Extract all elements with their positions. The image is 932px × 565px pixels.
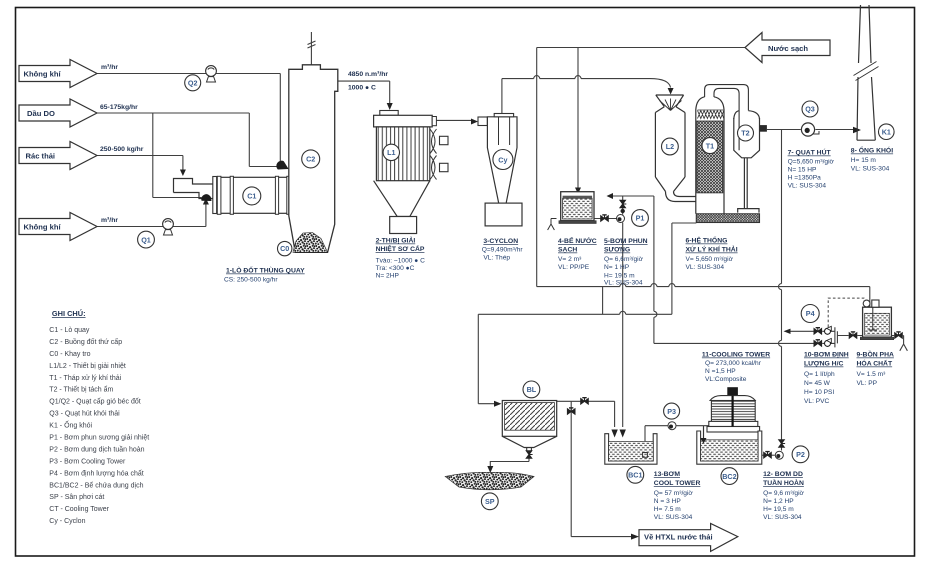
svg-text:N= 1 HP: N= 1 HP [604, 264, 630, 271]
combustion chamber C2 [289, 65, 338, 253]
arrow into cyclone [471, 119, 478, 125]
kiln right end band [287, 176, 291, 214]
heat exchanger L1 top cap [380, 111, 398, 116]
node P1 [632, 210, 649, 227]
svg-text:7- QUẠT HÚT: 7- QUẠT HÚT [788, 148, 832, 157]
svg-text:L1: L1 [387, 148, 395, 157]
svg-text:Về HTXL nước thải: Về HTXL nước thải [644, 533, 713, 542]
L1 dust box [390, 217, 417, 234]
svg-text:4850 n.m³/hr: 4850 n.m³/hr [348, 71, 388, 78]
L1 fan 1 [430, 129, 437, 154]
valve on P1 riser [620, 200, 626, 208]
L1 fan motor 1 [440, 136, 449, 144]
packed tower T1 [696, 97, 724, 214]
T1 zigzag spray band [698, 110, 724, 119]
svg-text:BL: BL [527, 385, 537, 394]
svg-text:Không khí: Không khí [24, 223, 62, 232]
node T2 [738, 125, 754, 141]
T2 outlet stub [760, 125, 767, 132]
scrubber labels [686, 235, 738, 272]
svg-text:5-BƠM PHUN: 5-BƠM PHUN [604, 238, 648, 245]
svg-text:P1: P1 [636, 214, 645, 223]
arrow into BL [494, 401, 502, 407]
svg-text:13-BƠM: 13-BƠM [654, 471, 681, 478]
waste feed chute [174, 179, 213, 199]
svg-text:BC1: BC1 [628, 471, 642, 480]
arrow into L1 top [387, 103, 393, 110]
P2 labels [763, 471, 804, 521]
svg-text:Q3 - Quạt hút khói thải: Q3 - Quạt hút khói thải [49, 411, 120, 418]
hop arc on H2 [620, 311, 626, 314]
wire tank9 drain right [891, 336, 907, 351]
svg-text:P2 - Bơm dung dịch tuần hoàn: P2 - Bơm dung dịch tuần hoàn [49, 445, 144, 454]
gas duct labels [348, 71, 388, 92]
fan Q2 [206, 66, 217, 82]
wire BL outlet to BC1 and waste water [557, 401, 631, 536]
L1 fan 2 [430, 156, 437, 180]
svg-text:12- BƠM DD: 12- BƠM DD [763, 471, 803, 478]
wire jumper between water main and blowdown line [602, 287, 604, 315]
quench tower L2 [655, 95, 695, 202]
svg-text:L2: L2 [666, 142, 674, 151]
chemical tank 9 [860, 300, 893, 340]
svg-text:C1 - Lò quay: C1 - Lò quay [49, 327, 90, 334]
svg-text:65-175kg/hr: 65-175kg/hr [100, 104, 138, 111]
arrow into waste chute [180, 170, 186, 177]
pump P2 [775, 451, 783, 459]
P1 labels [604, 238, 648, 287]
svg-text:Q= 1 lít/ph: Q= 1 lít/ph [804, 371, 835, 378]
cyclone body [487, 117, 517, 208]
svg-text:COOL TOWER: COOL TOWER [654, 480, 701, 487]
node T1 [702, 138, 718, 154]
svg-text:H= 19,5 m: H= 19,5 m [604, 273, 635, 280]
svg-text:C1: C1 [247, 192, 256, 201]
dosing pump upper [825, 326, 832, 334]
L1 labels [376, 236, 425, 280]
wire BC1 to P3 to tower [645, 426, 709, 456]
wire flue gas C2 to L1 [338, 81, 390, 104]
svg-text:V= 1.5 m³: V= 1.5 m³ [857, 371, 887, 378]
wire blowdown H2 from sump to BL [478, 223, 696, 404]
svg-text:VL: SUS-304: VL: SUS-304 [654, 514, 693, 521]
dosing pump lower [825, 338, 832, 346]
svg-text:Rác thải: Rác thải [26, 152, 56, 161]
L1 fan motor 2 [440, 163, 449, 171]
L1 hopper [374, 181, 430, 217]
svg-text:SP: SP [485, 497, 495, 506]
arrow into waste flag [631, 534, 639, 540]
clean water flag: Nuoc sach [745, 33, 830, 63]
cyclone labels [482, 238, 524, 262]
svg-text:H= 15 m: H= 15 m [851, 157, 877, 164]
T1 packing bed [697, 121, 723, 193]
stack K1 [854, 5, 879, 140]
node Q2 [185, 75, 201, 91]
valve dosing lower [814, 340, 822, 346]
svg-text:Nước sạch: Nước sạch [768, 44, 808, 53]
svg-text:SP - Sân phơi cát: SP - Sân phơi cát [49, 494, 104, 501]
wire dosing manifold [835, 327, 863, 347]
hop arcs on P2 riser [779, 284, 782, 347]
node C1 [243, 187, 261, 205]
svg-text:C2 - Buồng đốt thứ cấp: C2 - Buồng đốt thứ cấp [49, 337, 122, 346]
dosing control dashed signal [828, 298, 864, 327]
valve BL underflow [526, 451, 532, 459]
valve blowdown branch [567, 408, 575, 414]
node BL [523, 381, 540, 398]
svg-text:BC1/BC2 - Bể chứa dung dịch: BC1/BC2 - Bể chứa dung dịch [49, 482, 143, 490]
input flag: Khong khi (bottom) [19, 213, 97, 241]
svg-text:H =1350Pa: H =1350Pa [788, 175, 822, 182]
svg-text:250-500 kg/hr: 250-500 kg/hr [100, 146, 144, 153]
svg-text:VL: SUS-304: VL: SUS-304 [788, 183, 827, 190]
svg-text:N= 15 HP: N= 15 HP [788, 167, 817, 174]
node Q3 [802, 101, 818, 117]
svg-text:Q1: Q1 [141, 235, 151, 244]
svg-text:VL: Thép: VL: Thép [483, 255, 510, 262]
arrow filling tank 4 [575, 188, 581, 195]
valve tank4 outlet [601, 215, 609, 221]
svg-text:P3 - Bơm Cooling Tower: P3 - Bơm Cooling Tower [49, 459, 126, 466]
cooling tower CT [707, 387, 760, 432]
svg-text:VL: SUS-304: VL: SUS-304 [604, 280, 643, 287]
svg-text:P4 - Bơm định lượng hóa chất: P4 - Bơm định lượng hóa chất [49, 469, 143, 478]
arrow chemical into riser [784, 329, 791, 334]
svg-text:H= 7.5 m: H= 7.5 m [654, 506, 681, 513]
svg-text:VL: SUS-304: VL: SUS-304 [851, 166, 890, 173]
svg-text:LƯỢNG H/C: LƯỢNG H/C [804, 361, 843, 368]
dosing labels [804, 352, 849, 406]
kiln burner [201, 194, 211, 201]
L2 spray ticks [660, 99, 682, 111]
wire P1 top run to spray drop [613, 196, 654, 343]
kiln tyre 2 [275, 176, 278, 214]
svg-text:SẠCH: SẠCH [558, 247, 577, 254]
svg-text:4-BỂ NƯỚC: 4-BỂ NƯỚC [558, 236, 597, 245]
node L1 [383, 144, 399, 160]
svg-text:SƯƠNG: SƯƠNG [604, 247, 630, 254]
arrow into stack [853, 127, 861, 134]
P3 suction foot [643, 453, 648, 458]
svg-text:Cy: Cy [498, 155, 507, 164]
hop arc on spray drop at H2 [654, 311, 657, 317]
valve BC2 outlet [764, 452, 772, 458]
svg-text:XỨ LÝ KHÍ THẢI: XỨ LÝ KHÍ THẢI [686, 245, 738, 254]
scrubber sump [696, 214, 759, 223]
svg-text:10-BƠM ĐỊNH: 10-BƠM ĐỊNH [804, 352, 849, 359]
svg-text:CT - Cooling Tower: CT - Cooling Tower [49, 506, 109, 513]
input flag: Dau DO [19, 99, 97, 127]
svg-text:T2 - Thiết bị tách ẩm: T2 - Thiết bị tách ẩm [49, 385, 113, 394]
wire fuel branch to kiln burner [153, 113, 202, 198]
svg-text:1000 ● C: 1000 ● C [348, 85, 376, 92]
svg-text:VL: PVC: VL: PVC [804, 398, 830, 405]
svg-text:Q3: Q3 [805, 105, 815, 114]
svg-text:P1 - Bơm phun sương giải nhiệt: P1 - Bơm phun sương giải nhiệt [49, 435, 149, 442]
wire cyclone outlet riser and gas line with hops [502, 79, 671, 114]
arrow air2 into kiln burner [203, 198, 209, 205]
svg-text:T1: T1 [706, 141, 714, 150]
svg-text:P3: P3 [667, 407, 676, 416]
wire L1 outlet to cyclone [436, 119, 471, 121]
wire fuel DO to both burners [97, 113, 278, 167]
chem tank labels [857, 349, 894, 388]
svg-text:3-CYCLON: 3-CYCLON [483, 238, 518, 245]
svg-text:Q= 9,6 m³/giờ: Q= 9,6 m³/giờ [763, 490, 804, 497]
stack break mark [308, 41, 316, 48]
valve tank9 outlet [849, 332, 857, 338]
svg-text:V= 5,650 m³/giờ: V= 5,650 m³/giờ [686, 256, 734, 263]
settling tank BL [502, 401, 556, 451]
C2 burner [276, 161, 288, 170]
svg-text:VL: SUS-304: VL: SUS-304 [763, 514, 802, 521]
svg-text:Q=5,650 m³/giờ: Q=5,650 m³/giờ [788, 159, 835, 166]
sand drying yard SP [445, 472, 534, 489]
svg-text:T2: T2 [741, 129, 749, 138]
wire clean water main: flag to chem tank [537, 48, 870, 308]
blower Q3 [801, 123, 819, 136]
svg-text:T1 - Tháp xử lý khí thải: T1 - Tháp xử lý khí thải [49, 374, 121, 382]
svg-text:N= 1,2 HP: N= 1,2 HP [763, 498, 794, 505]
stack labels [851, 145, 893, 173]
P3 labels [654, 471, 701, 521]
valve dosing upper [814, 328, 822, 334]
node Q1 [138, 231, 155, 248]
demister T2 [734, 111, 760, 213]
solution tank BC2 [697, 427, 762, 465]
svg-text:Q= 273,000 kcal/hr: Q= 273,000 kcal/hr [705, 360, 762, 367]
svg-text:Tra: <300 ●C: Tra: <300 ●C [376, 265, 415, 272]
solution tank BC1 [605, 434, 657, 465]
svg-text:VL: PP/PE: VL: PP/PE [558, 264, 590, 271]
svg-text:m³/hr: m³/hr [101, 217, 118, 224]
kiln C1 face plate [213, 177, 217, 214]
wire air1 to Q2 and C2 burner [97, 74, 280, 162]
arrow onto sand yard [487, 466, 493, 473]
node K1 [879, 124, 895, 140]
node L2 [662, 138, 679, 155]
svg-text:H= 19,5 m: H= 19,5 m [763, 506, 794, 513]
cyclone vortex tubes [499, 117, 510, 145]
kiln tyre 1 [230, 176, 233, 214]
svg-text:Dầu DO: Dầu DO [27, 109, 55, 118]
node P3 [664, 403, 680, 419]
hop arcs on water main [620, 284, 675, 287]
input flag: Rac thai [19, 142, 97, 170]
wire C2 stack vent [310, 32, 312, 65]
node SP [481, 493, 498, 510]
valve BL outlet [581, 398, 589, 404]
hop arcs on gas line [534, 76, 581, 79]
svg-text:Q= 57 m³/giờ: Q= 57 m³/giờ [654, 490, 694, 497]
svg-text:N =1,5 HP: N =1,5 HP [705, 368, 736, 375]
svg-text:GHI CHÚ:: GHI CHÚ: [52, 309, 86, 318]
svg-text:11-COOLING TOWER: 11-COOLING TOWER [702, 352, 770, 359]
wire air2 to kiln burner [97, 203, 206, 227]
svg-text:C2: C2 [306, 155, 315, 164]
wire dosing lower line gaps at valve/pump [654, 342, 835, 344]
L1 header stub [432, 117, 436, 126]
kiln left end band [217, 176, 221, 214]
svg-text:V= 2 m³: V= 2 m³ [558, 256, 582, 263]
svg-text:Tvào: ~1000 ● C: Tvào: ~1000 ● C [376, 258, 425, 265]
pump P1 [617, 215, 625, 223]
node C0 [278, 241, 292, 255]
kiln C1 shell [217, 177, 291, 213]
wire tank4 suction to P1 [594, 218, 617, 220]
tank4 labels [558, 236, 597, 271]
legend [49, 309, 149, 525]
wire BC2 to P2 [762, 454, 775, 456]
node BC1 [627, 466, 644, 483]
svg-text:VL: SUS-304: VL: SUS-304 [686, 264, 725, 271]
wire P1 riser with valves up and down to BC1 [622, 196, 624, 427]
T1-T2 crossover pipe [705, 85, 749, 151]
wire waste feed to chute [97, 156, 183, 172]
cyclone inlet box [478, 117, 487, 126]
svg-text:Q2: Q2 [188, 79, 198, 88]
L1 header box [374, 115, 433, 127]
ash pile C0 [293, 233, 328, 253]
svg-text:VL: PP: VL: PP [857, 380, 878, 387]
svg-text:P4: P4 [806, 309, 815, 318]
svg-text:2-TH/BỊ GIẢI: 2-TH/BỊ GIẢI [376, 236, 416, 245]
svg-text:Q1/Q2 - Quạt cấp gió béc đốt: Q1/Q2 - Quạt cấp gió béc đốt [49, 397, 140, 406]
svg-text:Q= 6,6m³/giờ: Q= 6,6m³/giờ [604, 256, 644, 263]
arrows into BC1 [611, 430, 626, 438]
kiln label [224, 265, 305, 284]
svg-text:C0: C0 [280, 244, 289, 253]
svg-text:N= 45 W: N= 45 W [804, 380, 831, 387]
svg-text:H= 10 PSI: H= 10 PSI [804, 389, 834, 396]
cooling tower labels [702, 352, 770, 384]
svg-text:L1/L2 - Thiết bị giải nhiệt: L1/L2 - Thiết bị giải nhiệt [49, 361, 126, 370]
wire BL underflow to SP [490, 451, 529, 468]
fan Q3 labels [788, 148, 835, 190]
water tank 4 [559, 192, 596, 224]
fan Q1 [163, 219, 174, 235]
pump P3 [668, 422, 676, 430]
svg-text:P2: P2 [796, 450, 805, 459]
svg-text:C0 - Khay tro: C0 - Khay tro [49, 351, 90, 358]
tank4 drain strainer [548, 219, 557, 231]
node P4 [801, 305, 819, 323]
check valve on P2 riser [779, 440, 785, 448]
svg-text:N = 3 HP: N = 3 HP [654, 498, 682, 505]
node BC2 [721, 468, 738, 485]
svg-text:Không khí: Không khí [24, 70, 62, 79]
svg-text:Q=9,490m³/hr: Q=9,490m³/hr [482, 247, 524, 254]
wire branch filling tank 4 [577, 48, 579, 189]
svg-text:N= 2HP: N= 2HP [376, 273, 400, 280]
cyclone top bar [494, 114, 513, 117]
waste water flag: Ve HTXL nuoc thai [639, 524, 738, 552]
node Cy [493, 150, 513, 170]
svg-text:CS: 250-500 kg/hr: CS: 250-500 kg/hr [224, 277, 278, 284]
arrow into L2 top [668, 88, 674, 95]
check valve on P1 riser [621, 209, 625, 213]
wire dosing upper line [790, 330, 835, 332]
wire T2 gas to Q3 to stack [767, 129, 853, 131]
svg-text:VL:Composite: VL:Composite [705, 376, 747, 383]
L1 tube bundle [376, 127, 429, 181]
wire P2 riser full height [781, 130, 783, 451]
svg-text:K1: K1 [882, 127, 891, 136]
arrow left at P1 top run [607, 193, 614, 199]
svg-text:m³/hr: m³/hr [101, 64, 118, 71]
node P2 [792, 446, 809, 463]
input flag: Khong khi (top) [19, 60, 97, 88]
node C2 [302, 150, 320, 168]
valve tank9 drain [895, 332, 903, 338]
svg-text:Cy - Cyclon: Cy - Cyclon [49, 518, 85, 525]
cyclone dust box [485, 203, 522, 226]
svg-text:BC2: BC2 [722, 472, 736, 481]
